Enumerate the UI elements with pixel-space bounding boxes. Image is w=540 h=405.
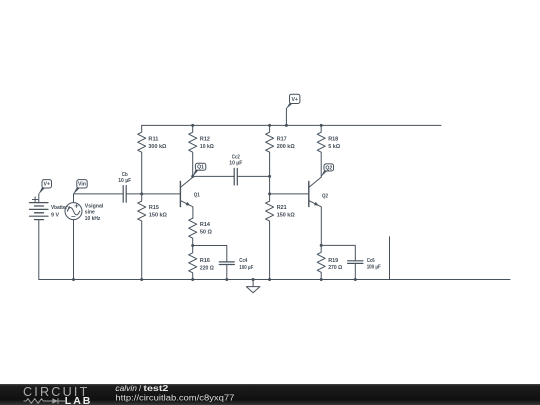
svg-text:R21: R21 [277, 205, 288, 211]
svg-text:R17: R17 [277, 137, 287, 143]
svg-text:220 Ω: 220 Ω [200, 265, 214, 271]
svg-text:Vbattery: Vbattery [51, 205, 71, 211]
svg-text:150 kΩ: 150 kΩ [277, 212, 295, 218]
svg-text:100 µF: 100 µF [239, 265, 253, 271]
svg-text:Q1: Q1 [194, 192, 201, 198]
svg-text:R11: R11 [148, 137, 159, 143]
svg-text:R16: R16 [200, 258, 211, 264]
svg-text:Cc4: Cc4 [239, 258, 248, 264]
svg-text:9 V: 9 V [51, 212, 59, 218]
svg-text:R19: R19 [328, 258, 339, 264]
svg-text:Vsignal: Vsignal [85, 204, 104, 210]
svg-text:Q2: Q2 [325, 165, 332, 171]
svg-text:Q1: Q1 [197, 165, 204, 171]
svg-text:Q2: Q2 [322, 194, 328, 200]
svg-text:5 kΩ: 5 kΩ [328, 144, 340, 150]
svg-text:100 µF: 100 µF [367, 265, 381, 271]
svg-text:50 Ω: 50 Ω [200, 229, 212, 235]
svg-text:300 kΩ: 300 kΩ [148, 144, 166, 150]
svg-text:V+: V+ [291, 97, 298, 103]
svg-text:calvin / test2: calvin / test2 [115, 384, 169, 393]
svg-text:R15: R15 [149, 205, 160, 211]
svg-text:sine: sine [85, 210, 96, 216]
svg-text:Vin: Vin [78, 182, 86, 188]
svg-text:http://circuitlab.com/c8yxq77: http://circuitlab.com/c8yxq77 [115, 393, 234, 402]
svg-text:150 kΩ: 150 kΩ [149, 212, 167, 218]
svg-text:R14: R14 [200, 222, 211, 228]
svg-text:270 Ω: 270 Ω [328, 265, 342, 271]
svg-text:LAB: LAB [65, 395, 93, 405]
svg-text:10 µF: 10 µF [229, 161, 242, 167]
svg-text:R12: R12 [200, 137, 210, 143]
svg-text:10 µF: 10 µF [118, 178, 131, 184]
svg-text:200 kΩ: 200 kΩ [277, 144, 295, 150]
svg-text:10 kHz: 10 kHz [85, 216, 101, 222]
svg-text:10 kΩ: 10 kΩ [200, 144, 214, 150]
svg-text:R18: R18 [328, 137, 339, 143]
svg-text:V+: V+ [44, 182, 51, 188]
svg-text:Cc6: Cc6 [367, 258, 376, 264]
